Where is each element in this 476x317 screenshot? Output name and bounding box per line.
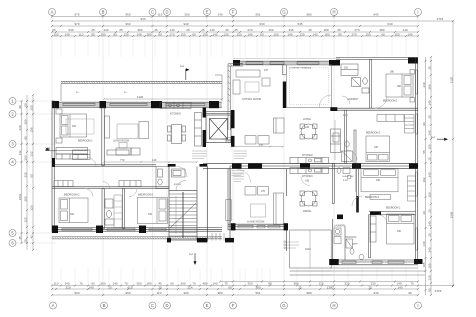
svg-text:BEDROOM 1: BEDROOM 1 — [365, 196, 380, 199]
bath2 top wall — [345, 236, 357, 238]
svg-text:130: 130 — [123, 33, 128, 37]
stairwell walls — [169, 191, 197, 241]
svg-text:300: 300 — [72, 125, 77, 128]
column N2 — [100, 101, 107, 108]
bath top fixtures — [352, 78, 370, 94]
text block flat103 — [234, 151, 247, 159]
corridor entry steps — [212, 233, 224, 241]
svg-text:130: 130 — [299, 33, 304, 37]
svg-text:25: 25 — [428, 233, 432, 237]
svg-text:110: 110 — [79, 33, 84, 37]
bottom ticks rows 1-2 — [51, 280, 454, 286]
svg-text:2715: 2715 — [435, 289, 442, 293]
column SR2 — [414, 259, 423, 264]
legend block — [284, 241, 299, 249]
svg-text:105: 105 — [422, 262, 426, 267]
entrance top wall black segs — [168, 164, 176, 167]
corridor end walls — [167, 238, 171, 243]
north sill rects right — [246, 62, 319, 64]
svg-text:150: 150 — [273, 33, 278, 37]
svg-text:60: 60 — [268, 282, 272, 286]
south sill rects right — [342, 261, 404, 264]
svg-text:SITTING ROOM: SITTING ROOM — [242, 97, 261, 101]
wall laundry/bath2 — [344, 226, 346, 260]
covered veranda dotted room — [286, 65, 331, 108]
living rug — [117, 124, 138, 139]
top numbers row4 — [52, 28, 408, 32]
svg-text:230: 230 — [18, 125, 22, 130]
svg-text:240: 240 — [428, 130, 432, 135]
svg-text:305: 305 — [24, 196, 28, 201]
svg-text:140: 140 — [312, 33, 317, 37]
svg-text:270: 270 — [169, 33, 174, 37]
svg-text:150: 150 — [365, 33, 370, 37]
svg-text:591: 591 — [255, 13, 260, 17]
svg-text:770: 770 — [120, 158, 125, 162]
svg-text:45: 45 — [18, 236, 22, 240]
south lower edge — [330, 267, 418, 269]
right ticks — [424, 20, 454, 296]
svg-text:25: 25 — [428, 157, 432, 161]
svg-text:A-A: A-A — [180, 65, 184, 68]
svg-text:2715: 2715 — [437, 17, 444, 21]
bottom ticks rows 3-4 — [51, 288, 419, 296]
living room west wall — [228, 169, 230, 230]
dresser top flat — [377, 115, 404, 122]
svg-text:A: A — [52, 303, 55, 308]
corridor dims — [103, 161, 198, 163]
svg-text:975: 975 — [74, 13, 79, 17]
svg-text:BEDROOM 3: BEDROOM 3 — [78, 140, 93, 143]
column S3 — [139, 226, 146, 234]
svg-text:I: I — [417, 303, 418, 308]
dining table round bottom — [300, 191, 317, 206]
svg-text:90: 90 — [422, 122, 426, 126]
section A-A right — [431, 136, 448, 141]
svg-text:60: 60 — [228, 285, 232, 289]
svg-text:940: 940 — [183, 22, 188, 26]
svg-text:KITCHEN: KITCHEN — [302, 175, 313, 178]
svg-text:25: 25 — [368, 285, 372, 289]
svg-text:150: 150 — [202, 33, 207, 37]
svg-text:270: 270 — [261, 190, 266, 193]
dining table round top flat — [300, 124, 317, 139]
svg-text:545: 545 — [297, 22, 302, 26]
svg-text:80: 80 — [158, 33, 162, 37]
veranda side edges — [61, 75, 222, 101]
svg-text:140: 140 — [212, 33, 217, 37]
svg-text:29: 29 — [422, 211, 426, 215]
svg-text:110: 110 — [54, 282, 59, 286]
svg-text:LIVING: LIVING — [303, 118, 311, 121]
svg-text:1015: 1015 — [305, 247, 311, 251]
svg-text:LAUNDRY: LAUNDRY — [334, 225, 346, 228]
svg-text:LIVING ROOM: LIVING ROOM — [247, 220, 264, 224]
svg-text:60: 60 — [381, 33, 385, 37]
column NE right — [408, 58, 418, 64]
extension lines bottom — [61, 268, 406, 284]
column S2 — [96, 226, 103, 234]
svg-text:180: 180 — [146, 282, 151, 286]
svg-text:205: 205 — [30, 105, 34, 110]
thick wall west of dining — [283, 82, 287, 109]
wardrobe top flat east — [405, 115, 415, 134]
kitchen bottom flat counters — [290, 168, 329, 174]
wall bath/bedroom1 — [123, 189, 125, 229]
svg-text:1120: 1120 — [450, 76, 454, 83]
wall closet/bed1 — [370, 60, 372, 109]
entry shoe cabinet — [172, 169, 186, 177]
svg-text:105: 105 — [428, 263, 432, 268]
column N3 — [151, 101, 162, 108]
island counter — [116, 148, 140, 155]
svg-text:ENTRY: ENTRY — [174, 184, 182, 186]
interior room dim labels — [70, 69, 402, 233]
svg-text:1390: 1390 — [327, 285, 334, 289]
patio bottom middle — [290, 230, 332, 275]
svg-text:60: 60 — [192, 33, 196, 37]
svg-text:115: 115 — [158, 13, 163, 17]
svg-text:325: 325 — [24, 217, 28, 222]
column SW — [52, 226, 58, 234]
svg-text:960: 960 — [125, 13, 130, 17]
section A-A top — [180, 65, 190, 80]
svg-text:615: 615 — [127, 285, 132, 289]
svg-text:300: 300 — [184, 13, 189, 17]
wall kitchen/living bottom — [286, 169, 288, 196]
svg-text:150: 150 — [394, 33, 399, 37]
svg-text:140: 140 — [212, 282, 217, 286]
svg-text:B: B — [103, 303, 106, 308]
lower rooms top wall — [52, 187, 169, 189]
svg-text:140: 140 — [136, 33, 141, 37]
svg-text:75: 75 — [79, 282, 83, 286]
svg-text:140: 140 — [88, 285, 93, 289]
veranda top hatched edge — [61, 81, 222, 83]
living south wall — [228, 224, 288, 230]
veranda west sill — [222, 138, 231, 142]
svg-text:385: 385 — [428, 84, 432, 89]
svg-text:108: 108 — [305, 126, 310, 129]
shaft wall right — [231, 110, 235, 128]
laundry bottom — [334, 228, 341, 244]
svg-text:G: G — [282, 303, 285, 308]
svg-text:80: 80 — [338, 33, 342, 37]
svg-text:320: 320 — [344, 282, 349, 286]
svg-text:BEDROOM 1: BEDROOM 1 — [138, 193, 154, 197]
svg-text:90: 90 — [408, 291, 412, 295]
west wall black segment — [52, 158, 55, 167]
svg-text:110: 110 — [157, 291, 162, 295]
level marker west — [45, 148, 50, 151]
svg-text:140: 140 — [64, 33, 69, 37]
svg-text:340: 340 — [428, 172, 432, 177]
dresser strip bedroom2 bottom — [370, 216, 376, 242]
bath2 bottom — [346, 239, 364, 260]
bathroom mid fixtures — [102, 189, 122, 229]
column topN1 — [233, 60, 240, 66]
closet CH — [341, 64, 358, 76]
top numbers row5 — [53, 33, 412, 37]
svg-text:I: I — [417, 10, 418, 15]
svg-text:380: 380 — [217, 291, 222, 295]
interior dim 1140 — [103, 98, 223, 100]
extension lines top — [61, 38, 406, 58]
svg-text:640: 640 — [373, 291, 378, 295]
NE block top wall — [336, 58, 418, 60]
sitting dim row — [230, 145, 284, 147]
stair treads — [169, 194, 197, 236]
svg-text:140: 140 — [112, 282, 117, 286]
bedroom2 top flat bed — [366, 136, 390, 162]
svg-text:130: 130 — [428, 275, 432, 280]
svg-text:340: 340 — [397, 230, 402, 233]
svg-text:140: 140 — [428, 221, 432, 226]
svg-text:1.10: 1.10 — [343, 179, 348, 182]
svg-text:D: D — [165, 10, 168, 15]
svg-text:KITCHEN: KITCHEN — [170, 113, 181, 116]
patio edge bottom — [52, 237, 222, 239]
column topN2 — [329, 60, 340, 66]
laundry west wall — [331, 219, 333, 260]
svg-text:C: C — [151, 10, 154, 15]
svg-text:380: 380 — [255, 285, 260, 289]
svg-text:340: 340 — [376, 179, 381, 182]
svg-text:300: 300 — [428, 192, 432, 197]
svg-text:335: 335 — [24, 172, 28, 177]
svg-text:960: 960 — [74, 291, 79, 295]
entry door arc — [177, 167, 188, 178]
sitting veranda sofas — [233, 70, 284, 144]
door arc laundry top — [342, 96, 350, 104]
interior dim stair — [175, 196, 177, 234]
east sill rects — [416, 70, 418, 250]
mid wall right (between bed1 and bed2) — [331, 108, 418, 110]
svg-text:214: 214 — [187, 285, 192, 289]
top ticks — [51, 15, 454, 27]
door arc dining hall — [319, 95, 331, 107]
north window wall — [52, 102, 222, 107]
svg-text:50: 50 — [24, 103, 28, 107]
living sofa — [139, 122, 149, 139]
svg-text:315: 315 — [148, 213, 153, 216]
svg-text:1.10: 1.10 — [343, 114, 348, 117]
kitchen counter top flat — [290, 157, 329, 163]
svg-text:332: 332 — [30, 151, 34, 156]
column NW — [52, 101, 59, 108]
top dimension numbers row1 — [74, 13, 378, 17]
west wall — [52, 101, 54, 232]
svg-text:140: 140 — [152, 158, 157, 162]
svg-text:630: 630 — [259, 22, 264, 26]
north sill rects left — [63, 103, 205, 105]
svg-text:102: 102 — [422, 177, 426, 182]
svg-text:300: 300 — [180, 282, 185, 286]
left dimension lines — [22, 95, 34, 250]
south sill rects left — [62, 228, 166, 230]
bedroom3 bed — [56, 109, 87, 143]
svg-text:BATH: BATH — [352, 243, 358, 246]
living armchair — [119, 143, 127, 149]
door arc bedroom3 — [87, 158, 96, 167]
svg-text:300: 300 — [183, 291, 188, 295]
svg-text:42: 42 — [30, 235, 34, 239]
top dimension lines — [52, 17, 453, 37]
svg-text:1140: 1140 — [137, 95, 144, 99]
svg-text:BEDROOM 1: BEDROOM 1 — [383, 100, 398, 103]
svg-text:142: 142 — [18, 150, 22, 155]
svg-text:GUEST RM: GUEST RM — [342, 176, 354, 178]
left ticks — [20, 94, 34, 251]
svg-text:H: H — [332, 10, 335, 15]
svg-text:70: 70 — [192, 282, 196, 286]
terrace edge right — [331, 271, 425, 275]
living sill rects — [238, 225, 280, 228]
door arc kitchen bottom — [301, 177, 310, 186]
svg-text:70: 70 — [410, 282, 414, 286]
svg-text:180: 180 — [324, 33, 329, 37]
svg-text:140: 140 — [407, 33, 412, 37]
bottom numbers rows — [54, 282, 414, 286]
svg-text:60: 60 — [30, 174, 34, 178]
kitchen strip top flat — [331, 129, 341, 153]
svg-text:25: 25 — [119, 28, 123, 32]
svg-text:25: 25 — [428, 115, 432, 119]
svg-text:A-A: A-A — [431, 136, 435, 139]
door arc top bedroom2 right — [347, 150, 357, 160]
svg-text:90: 90 — [428, 288, 432, 292]
svg-text:25: 25 — [158, 285, 162, 289]
wall left of guest — [332, 163, 334, 203]
living sofa long — [226, 187, 284, 225]
svg-text:980: 980 — [306, 291, 311, 295]
bedroom1 top bed — [386, 70, 415, 103]
wall living/dining bottom — [286, 230, 288, 251]
svg-text:200: 200 — [344, 67, 349, 70]
section A-A bottom — [189, 253, 197, 265]
grid bubbles top — [49, 9, 422, 16]
top ticks rows 4-5 — [51, 31, 419, 37]
svg-text:300: 300 — [247, 282, 252, 286]
text block corridor — [234, 174, 245, 182]
wall bath top flat — [354, 130, 356, 163]
wall above — [283, 65, 287, 75]
svg-text:D: D — [165, 303, 168, 308]
bedroom2 bed — [59, 198, 88, 223]
svg-text:DINING: DINING — [303, 210, 312, 213]
svg-text:C: C — [151, 303, 154, 308]
svg-text:140: 140 — [428, 100, 432, 105]
wall bed1/bed2 bottom — [369, 212, 416, 215]
bedroom3 wardrobe — [56, 148, 88, 160]
svg-text:60: 60 — [170, 282, 174, 286]
top numbers row2 — [140, 17, 443, 26]
grid bubbles left — [9, 98, 16, 247]
bathroom left flat — [156, 167, 169, 189]
svg-text:380: 380 — [397, 85, 402, 88]
svg-text:960: 960 — [125, 291, 130, 295]
svg-text:970: 970 — [74, 22, 79, 26]
svg-text:150: 150 — [180, 33, 185, 37]
svg-text:25: 25 — [308, 28, 312, 32]
wall bedroom3/living — [102, 108, 105, 166]
svg-text:25: 25 — [298, 285, 302, 289]
entrance hall — [169, 167, 197, 191]
corridor wall mid — [52, 165, 156, 167]
south wall right — [330, 260, 418, 265]
svg-text:90: 90 — [18, 105, 22, 109]
svg-text:270: 270 — [264, 69, 269, 72]
svg-text:A-A: A-A — [189, 253, 193, 256]
interior dim right flat — [310, 120, 356, 268]
svg-text:25: 25 — [108, 285, 112, 289]
svg-text:120: 120 — [318, 282, 323, 286]
svg-text:E: E — [206, 10, 209, 15]
door arc bedroom2 left — [85, 189, 93, 197]
svg-text:380: 380 — [390, 71, 395, 74]
veranda hatch ticks — [61, 81, 221, 83]
door arc bath left — [103, 182, 110, 189]
svg-text:55: 55 — [422, 150, 426, 154]
svg-text:B: B — [102, 10, 105, 15]
top numbers row3 — [74, 22, 392, 26]
svg-text:300: 300 — [24, 119, 28, 124]
svg-text:80: 80 — [113, 33, 117, 37]
wardrobe bottom flat east — [408, 176, 416, 201]
svg-text:640: 640 — [387, 22, 392, 26]
svg-text:108: 108 — [305, 180, 310, 183]
svg-text:320: 320 — [65, 285, 70, 289]
svg-text:135: 135 — [223, 33, 228, 37]
corridor walls — [207, 166, 230, 241]
svg-text:80: 80 — [91, 33, 95, 37]
living tv unit — [105, 116, 110, 138]
kitchen tall units — [195, 113, 202, 147]
svg-text:180: 180 — [146, 33, 151, 37]
svg-text:25: 25 — [428, 209, 432, 213]
svg-text:340: 340 — [374, 146, 379, 149]
wall kitchen/bed2 top — [345, 110, 347, 163]
svg-text:BEDROOM 2: BEDROOM 2 — [64, 193, 80, 197]
elevator shaft — [206, 115, 231, 143]
svg-text:325: 325 — [30, 205, 34, 210]
svg-text:300: 300 — [136, 282, 141, 286]
west hatched corner top — [228, 64, 243, 130]
svg-text:340: 340 — [428, 247, 432, 252]
svg-text:300: 300 — [70, 213, 75, 216]
stair break line — [170, 203, 196, 228]
door arc bottom bedroom1 right — [352, 196, 362, 206]
wall right of guest — [357, 163, 359, 212]
shaft wall top — [206, 112, 231, 114]
svg-text:150: 150 — [53, 33, 58, 37]
bedroom2 bottom bed — [387, 214, 415, 244]
kitchen top counter — [160, 103, 191, 109]
grid lines horizontal left — [16, 101, 56, 243]
grid bubbles bottom — [50, 302, 422, 309]
svg-text:25: 25 — [428, 66, 432, 70]
svg-text:270: 270 — [259, 144, 264, 147]
flat103 text block + entry arc — [232, 170, 251, 183]
door arc top bedroom1 right — [375, 96, 387, 108]
bedroom3 rug — [66, 119, 94, 134]
bedroom1 bed — [138, 198, 168, 224]
svg-text:80: 80 — [24, 136, 28, 140]
svg-text:200: 200 — [100, 33, 105, 37]
hallway wardrobes — [73, 150, 130, 160]
svg-text:E: E — [206, 303, 209, 308]
kitchen dining table — [168, 125, 186, 144]
